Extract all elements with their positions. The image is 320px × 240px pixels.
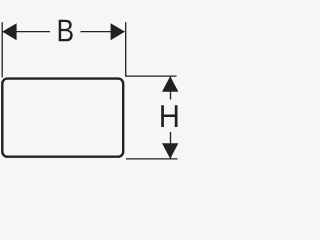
extension line left of B: [1, 22, 3, 77]
dimension line H top segment: [170, 76, 172, 99]
extension line bottom of H: [126, 158, 178, 160]
dimension line H bottom segment: [170, 132, 172, 159]
arrowhead H down: [162, 143, 178, 159]
dimension line B left segment: [3, 31, 51, 33]
arrowhead B right: [111, 23, 125, 40]
extension line top of H: [126, 75, 177, 77]
label B: [59, 20, 73, 42]
label H: [161, 105, 177, 127]
dimension line B right segment: [81, 31, 125, 33]
arrowhead B left: [2, 23, 16, 40]
extension line right of B: [125, 22, 127, 76]
plate outline: [2, 79, 123, 157]
arrowhead H up: [162, 76, 178, 92]
